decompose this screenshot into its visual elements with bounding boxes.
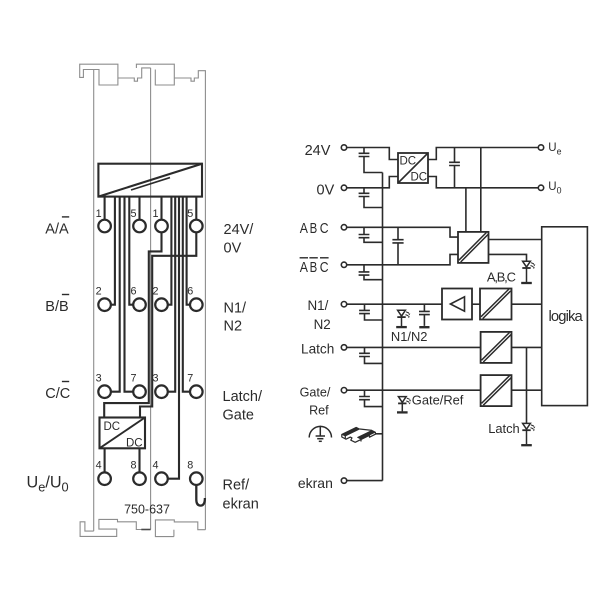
wire box to contact 5 row1 <box>138 197 140 220</box>
contact 5b row1 <box>190 220 203 233</box>
capacitor C2 on 0V <box>359 188 383 208</box>
terminal 0V <box>341 185 346 190</box>
svg-text:DC: DC <box>104 421 121 433</box>
svg-text:N1/: N1/ <box>307 298 328 313</box>
svg-text:N2: N2 <box>224 319 243 335</box>
capacitor C6 on ABC-bar <box>359 265 383 280</box>
svg-text:Gate/Ref: Gate/Ref <box>412 392 464 407</box>
terminal 24V <box>341 145 346 150</box>
label A B C <box>300 221 329 237</box>
LED A,B,C <box>521 261 535 283</box>
module housing bottom profile left <box>80 519 151 536</box>
svg-text:DC: DC <box>400 155 417 167</box>
svg-text:N2: N2 <box>314 317 331 332</box>
wire bundle right 4 to contact 7 row3 <box>183 197 190 392</box>
DC-DC labels <box>104 421 143 450</box>
svg-text:B: B <box>310 221 318 237</box>
module housing bottom profile right <box>155 520 205 537</box>
wire bundle left 3 to contact 7 row3 <box>125 197 134 392</box>
capacitor C7 on N1/N2 <box>359 304 382 320</box>
svg-text:B: B <box>310 260 318 276</box>
jog wire contact1-row1 down to DC-DC in <box>104 232 161 417</box>
functional earth symbol <box>309 426 331 442</box>
overline on C <box>62 381 69 383</box>
svg-text:C: C <box>320 221 329 237</box>
DC-DC converter box schematic <box>398 153 428 183</box>
label A-bar B-bar C-bar <box>300 260 329 276</box>
module housing top profile left tab <box>80 64 118 85</box>
wire bundle left 4 to contact 6 row2 <box>129 197 133 305</box>
wire Latch branch down to LED Latch <box>526 347 528 423</box>
contact 2b row2 <box>155 298 168 311</box>
LED Latch <box>521 423 535 445</box>
svg-text:Latch: Latch <box>301 341 334 356</box>
svg-text:5: 5 <box>130 208 136 220</box>
svg-text:0V: 0V <box>224 241 242 257</box>
svg-text:8: 8 <box>130 459 136 471</box>
module housing top profile middle notch <box>118 68 151 81</box>
isolator box ABC <box>458 232 489 263</box>
DIN rail symbol <box>342 427 376 442</box>
module housing top profile right notch and right edge <box>174 71 205 530</box>
wire bundle right 1 to contact 2 row2 <box>168 197 172 305</box>
svg-text:24V/: 24V/ <box>224 222 255 238</box>
svg-text:8: 8 <box>187 459 193 471</box>
wire Gate/Ref input <box>347 389 481 391</box>
wire isolator Gate to logika <box>512 389 542 391</box>
contact 8 row4 <box>133 472 146 485</box>
svg-text:ekran: ekran <box>298 475 333 491</box>
wire isolator N1/N2 to logika <box>512 303 542 305</box>
wire box to contact 1 row1 right group <box>160 197 162 220</box>
input stage box U1 with diagonal <box>98 164 202 197</box>
capacitor C1 on 24V <box>359 148 383 173</box>
LED Gate/Ref <box>397 397 411 413</box>
jog wire contact5-row1 down to DC-DC in <box>140 232 196 417</box>
overline on A <box>62 216 69 218</box>
svg-text:logika: logika <box>549 309 584 325</box>
terminal ekran <box>341 478 346 483</box>
dark notch segment bottom center <box>141 529 150 531</box>
overlines on A-bar B-bar C-bar <box>300 257 308 259</box>
isolator box N1/N2 <box>480 289 512 320</box>
svg-text:750-637: 750-637 <box>124 503 170 517</box>
isolator box Latch <box>481 332 512 363</box>
svg-text:7: 7 <box>130 372 136 384</box>
svg-text:C: C <box>320 260 329 276</box>
svg-text:Gate: Gate <box>223 408 254 424</box>
wire between amplifier and isolator <box>472 303 480 305</box>
wire isolator ABC to LED ABC <box>488 254 526 261</box>
wire U0 rail down to isolator ABC <box>465 188 467 232</box>
terminal A B C <box>341 225 346 230</box>
capacitor C8 on N1/N2 with bar <box>419 304 430 326</box>
svg-text:DC: DC <box>126 438 143 450</box>
wire bundle left 2 to contact 3 <box>111 197 120 392</box>
module housing left edge <box>93 70 95 532</box>
wire DIN rail to bus <box>375 433 383 435</box>
svg-text:0V: 0V <box>317 182 335 198</box>
terminal Gate/Ref <box>341 388 346 393</box>
svg-text:A,B,C: A,B,C <box>487 269 516 284</box>
wire bundle left 1 to contact 2 <box>111 197 115 305</box>
wire bundle right 2 to contact 3 row3 <box>168 197 175 392</box>
svg-text:5: 5 <box>187 208 193 220</box>
wire isolator Latch to logika <box>512 346 542 348</box>
contact 2 row2 <box>98 298 111 311</box>
capacitor C9 on Latch <box>359 347 382 363</box>
svg-text:24V: 24V <box>305 143 331 159</box>
svg-text:7: 7 <box>187 372 193 384</box>
svg-text:Ref/: Ref/ <box>223 478 251 494</box>
DC-DC converter box in module <box>100 418 146 449</box>
logika box <box>542 227 588 406</box>
svg-text:ekran: ekran <box>223 496 259 512</box>
wire 0V to DC-DC <box>347 177 398 188</box>
wire Ue rail down to isolator ABC <box>480 148 482 232</box>
contact 4b row4 <box>155 472 168 485</box>
contact 8b row4 <box>190 472 203 485</box>
contact 4 row4 <box>98 472 111 485</box>
wire DC-DC to U0 terminal <box>428 177 538 188</box>
svg-text:N1/N2: N1/N2 <box>391 329 428 344</box>
wire box to contact 5 row1 right group <box>195 197 197 220</box>
svg-text:C/C: C/C <box>45 386 70 402</box>
terminal U0 <box>538 185 543 190</box>
contact 6b row2 <box>190 298 203 311</box>
svg-text:4: 4 <box>152 459 158 471</box>
wire isolator ABC to logika <box>489 239 542 241</box>
wire bundle right 3 to contact 4 row4 <box>168 197 179 479</box>
svg-text:2: 2 <box>96 285 102 297</box>
svg-text:1: 1 <box>96 208 102 220</box>
svg-text:6: 6 <box>130 285 136 297</box>
capacitor C3 output <box>449 148 460 188</box>
DC-DC out to contact 4 row4 <box>104 448 106 472</box>
LED N1/N2 <box>396 310 410 327</box>
wire N1/N2 input <box>347 303 442 305</box>
contact 5 row1 <box>133 220 146 233</box>
wire 24V to DC-DC <box>347 148 398 160</box>
contact 1 row1 <box>98 220 111 233</box>
svg-text:4: 4 <box>96 459 102 471</box>
contact 7b row3 <box>190 385 203 398</box>
terminal Latch <box>341 345 346 350</box>
amplifier box N1/N2 <box>442 289 472 320</box>
contact 1b row1 <box>155 220 168 233</box>
terminal A-bar B-bar C-bar <box>341 262 346 267</box>
svg-text:B/B: B/B <box>45 299 68 315</box>
capacitor C4 on ABC <box>359 227 383 242</box>
wire ekran input <box>347 480 383 482</box>
wire Latch input <box>347 346 481 348</box>
overline on B <box>62 294 69 296</box>
svg-text:DC: DC <box>411 172 428 184</box>
capacitor C10 on Gate <box>359 390 382 406</box>
DC-DC out to contact 8 row4 <box>138 448 140 472</box>
isolator box Gate <box>481 375 512 406</box>
contact 7 row3 <box>133 385 146 398</box>
svg-text:3: 3 <box>152 372 158 384</box>
terminal Ue <box>538 145 543 150</box>
wire A B C input <box>347 227 458 237</box>
wire A-bar B-bar C-bar input <box>347 254 458 264</box>
svg-text:Gate/: Gate/ <box>300 386 331 400</box>
contact 6 row2 <box>133 298 146 311</box>
capacitor C5 between ABC lines <box>392 227 403 264</box>
svg-text:Latch/: Latch/ <box>223 389 263 405</box>
svg-text:Latch: Latch <box>488 421 520 436</box>
svg-text:A/A: A/A <box>45 221 69 237</box>
svg-text:2: 2 <box>152 285 158 297</box>
wire bundle right 5 to contact 6 row2 <box>187 197 190 305</box>
svg-text:N1/: N1/ <box>224 300 248 316</box>
contact 3 row3 <box>98 385 111 398</box>
ekran hook under contact 8 row4 <box>196 485 205 506</box>
svg-text:A: A <box>300 260 308 276</box>
svg-text:Ref: Ref <box>309 403 329 417</box>
svg-text:3: 3 <box>96 372 102 384</box>
svg-text:A: A <box>300 221 308 237</box>
module housing center divider line <box>150 68 152 530</box>
wire DC-DC to Ue terminal <box>428 148 538 160</box>
internal bus vertical <box>382 173 384 481</box>
terminal N1/N2 <box>341 302 346 307</box>
wire box to contact 1 row1 <box>104 197 106 220</box>
svg-text:1: 1 <box>152 208 158 220</box>
svg-text:6: 6 <box>187 285 193 297</box>
module housing top profile right tab <box>136 64 174 85</box>
contact 3b row3 <box>155 385 168 398</box>
